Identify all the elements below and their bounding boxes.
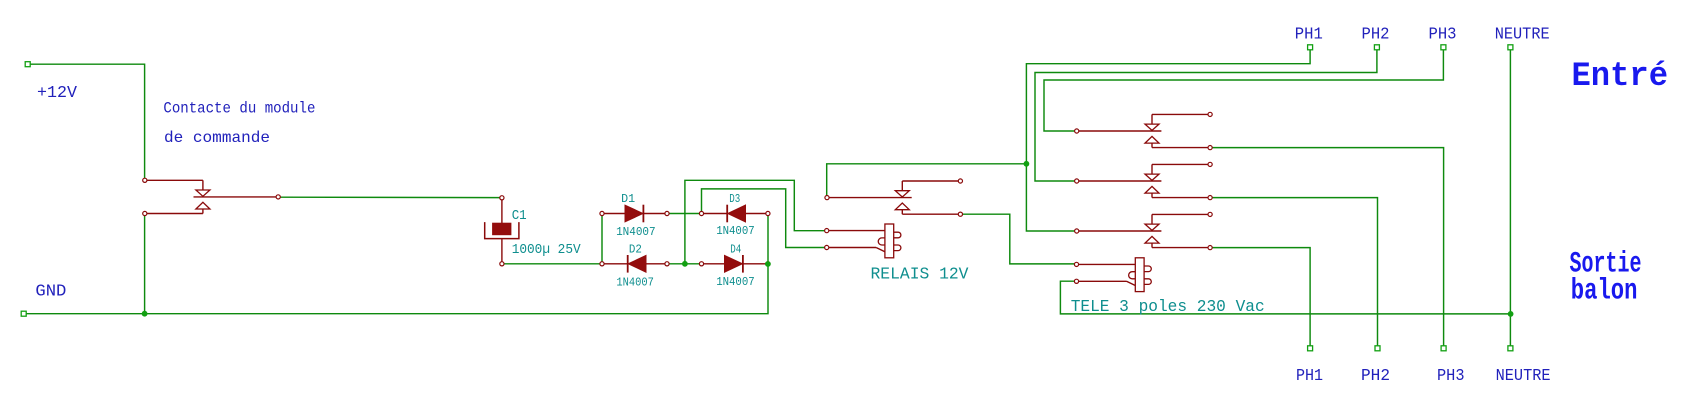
svg-text:PH1: PH1 (1295, 25, 1323, 44)
svg-text:1000µ 25V: 1000µ 25V (512, 242, 582, 258)
wire PH3 net: top square to contact1 common (1044, 50, 1443, 131)
contact K2.3 TELE pole 3 (1075, 212, 1213, 249)
wire bridge bottom row D2 to D4 (669, 263, 699, 265)
svg-text:RELAIS 12V: RELAIS 12V (871, 265, 970, 284)
junction GND rail / contact branch (142, 311, 148, 317)
junction relay common / PH1 net (1024, 161, 1030, 167)
svg-text:PH3: PH3 (1437, 367, 1465, 386)
svg-text:PH2: PH2 (1361, 367, 1390, 386)
node PH3 top wire end (1441, 45, 1446, 50)
svg-text:Contacte du module: Contacte du module (163, 99, 315, 117)
svg-text:NEUTRE: NEUTRE (1496, 367, 1551, 386)
node GND wire end (21, 311, 26, 316)
svg-text:TELE 3 poles 230 Vac: TELE 3 poles 230 Vac (1071, 298, 1265, 317)
svg-text:D2: D2 (629, 242, 642, 256)
junction D4 cathode / rail riser (765, 261, 771, 267)
wire bridge left column D2 to D1 (601, 216, 603, 262)
svg-text:PH2: PH2 (1362, 25, 1390, 44)
diode D2 (600, 255, 669, 273)
svg-text:Entré: Entré (1572, 58, 1669, 96)
wire contact common to C1 top (280, 196, 499, 198)
wire contact bottom pin down to GND rail (144, 216, 146, 314)
node PH1 top wire end (1308, 45, 1313, 50)
contactor coil TELE 3 poles 230 Vac (1074, 258, 1151, 292)
wire contact1 NO to PH3 bottom (1212, 148, 1444, 346)
wire B: bridge top node up-over to relay coil pin 2 (702, 189, 825, 248)
capacitor C1 (polarized, 1000u 25V) (485, 196, 519, 266)
contact SW1 'Contacte du module de commande' (mirrored changeover) (143, 178, 281, 215)
svg-text:PH3: PH3 (1429, 25, 1457, 44)
svg-text:balon: balon (1571, 274, 1638, 308)
node PH2 bottom wire end (1375, 346, 1380, 351)
svg-text:PH1: PH1 (1296, 367, 1323, 386)
junction neutral rail / NEUTRE vertical (1508, 311, 1514, 317)
svg-text:+12V: +12V (37, 84, 78, 103)
wire bridge top row D1 cathode to D3 cathode (669, 213, 699, 215)
diode D3 (699, 205, 770, 223)
svg-text:1N4007: 1N4007 (616, 276, 654, 290)
svg-text:1N4007: 1N4007 (716, 224, 755, 238)
contact K1.A relay changeover contact (825, 179, 963, 216)
svg-text:GND: GND (35, 282, 66, 301)
svg-text:D4: D4 (730, 242, 741, 256)
svg-text:de commande: de commande (164, 129, 270, 147)
contact K2.2 TELE pole 2 (1075, 162, 1213, 199)
wire +12V from supply square to contact top pin (30, 64, 144, 178)
diode D1 (600, 205, 669, 223)
wire relay NO contact to TELE coil pin 1 (962, 214, 1074, 264)
wire contact3 NO to PH1 bottom (1212, 248, 1310, 346)
wire relay contact common up and right to PH1 junction (827, 164, 1027, 196)
wire A: bridge bottom node up-over to relay coil pin 1 (685, 180, 825, 263)
wire C1 bottom to D2 anode-side pin (504, 263, 600, 265)
wire GND rail and riser to bridge right column (26, 216, 768, 314)
node PH1 bottom wire end (1308, 346, 1313, 351)
node +12V wire end (25, 62, 30, 67)
node PH2 top wire end (1374, 45, 1379, 50)
wire PH1 net: top square down-left-down to contact3 common (1026, 50, 1310, 231)
svg-text:1N4007: 1N4007 (716, 275, 755, 289)
contact K2.1 TELE pole 1 (1075, 112, 1213, 149)
node NEUTRE top wire end (1508, 45, 1513, 50)
relay coil RELAIS 12V (825, 224, 901, 258)
node NEUTRE bottom wire end (1508, 346, 1513, 351)
svg-text:C1: C1 (512, 208, 527, 224)
svg-text:D3: D3 (729, 192, 740, 206)
wire contact2 NO to PH2 bottom (1212, 198, 1377, 346)
svg-text:NEUTRE: NEUTRE (1495, 25, 1550, 44)
svg-text:1N4007: 1N4007 (616, 225, 656, 239)
diode D4 (699, 255, 770, 273)
svg-text:D1: D1 (621, 192, 635, 206)
wire NEUTRE vertical (top square to bottom square) (1509, 50, 1511, 346)
junction bridge bottom node / wire A (682, 261, 688, 267)
wire TELE coil pin 2 down to neutral rail (1060, 281, 1510, 314)
wire PH2 net: top square to contact2 common (1035, 50, 1377, 181)
node PH3 bottom wire end (1441, 346, 1446, 351)
